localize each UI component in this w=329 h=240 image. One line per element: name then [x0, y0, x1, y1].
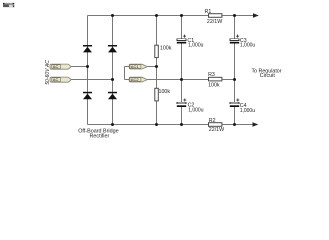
- svg-text:R3: R3: [208, 72, 215, 78]
- junction bottom rail at C2: [180, 123, 183, 126]
- junction bottom rail at middle column: [155, 123, 158, 126]
- svg-text:1,000u: 1,000u: [188, 108, 204, 114]
- svg-text:AC1: AC1: [131, 64, 140, 69]
- wire mid rail R3 to C3/C4 column: [222, 79, 235, 81]
- capacitor C4: [230, 99, 255, 114]
- port AC left input 1: [50, 64, 71, 69]
- svg-text:100k: 100k: [159, 89, 171, 95]
- junction top rail at C1: [180, 14, 183, 17]
- wire AC1 right tag to middle column: [147, 66, 156, 68]
- wire right bridge vertical: [112, 16, 114, 125]
- diode top-right of bridge: [108, 45, 117, 52]
- svg-text:22/1W: 22/1W: [209, 127, 224, 133]
- wire mid rail AC2 to R3: [147, 79, 208, 81]
- wire C4 top lead from mid rail: [234, 80, 236, 103]
- wire AC left tag2 to right vertical: [71, 79, 113, 81]
- svg-text:Rectifier: Rectifier: [90, 134, 110, 140]
- port AC left input 2: [50, 77, 71, 82]
- svg-text:AC2: AC2: [131, 77, 140, 82]
- svg-text:1,000u: 1,000u: [240, 108, 256, 114]
- junction mid rail at C1/C2: [180, 78, 183, 81]
- svg-text:100k: 100k: [208, 82, 220, 88]
- wire C1 bottom lead to mid rail: [181, 44, 183, 80]
- capacitor C3: [230, 35, 256, 49]
- svg-text:50-60V AC: 50-60V AC: [45, 60, 51, 85]
- wire C2 bottom lead: [181, 107, 183, 125]
- resistor R1: [209, 14, 222, 18]
- diode bottom-left of bridge: [83, 92, 92, 99]
- svg-text:R2: R2: [209, 118, 216, 124]
- wire bottom rail left segment: [88, 124, 209, 126]
- port AC1 right: [129, 64, 147, 69]
- resistor 100k upper bleeder: [155, 45, 159, 57]
- junction top rail at right bridge vertical: [111, 14, 114, 17]
- wire bottom rail right segment: [222, 124, 254, 126]
- watermark logo top-left: [3, 3, 14, 7]
- svg-text:1,000u: 1,000u: [188, 43, 204, 49]
- port AC2 right: [129, 77, 147, 82]
- resistor 100k lower bleeder: [155, 88, 159, 101]
- junction bottom rail at C4: [233, 123, 236, 126]
- arrow output negative rail: [253, 122, 259, 126]
- wire left bridge vertical: [87, 16, 89, 125]
- junction mid rail at C3/C4: [233, 78, 236, 81]
- svg-text:AC: AC: [53, 64, 59, 69]
- wire top rail right segment: [222, 15, 254, 17]
- wire middle divider column: [156, 16, 158, 125]
- wire C3 bottom lead to mid rail: [234, 44, 236, 80]
- wire C2 top lead from mid rail: [181, 80, 183, 103]
- resistor R3: [209, 77, 222, 81]
- wire C3 top lead: [234, 16, 236, 40]
- capacitor C2: [177, 99, 204, 114]
- capacitor C1: [177, 35, 204, 49]
- diode top-left of bridge: [83, 45, 92, 52]
- svg-text:100k: 100k: [160, 46, 172, 52]
- svg-text:1,000u: 1,000u: [240, 42, 256, 48]
- wire C1 top lead: [181, 16, 183, 40]
- svg-text:R1: R1: [205, 9, 212, 15]
- junction top rail at C3: [233, 14, 236, 17]
- arrow output positive rail: [253, 13, 259, 17]
- junction AC1 at left vertical: [86, 65, 89, 68]
- svg-text:Circuit: Circuit: [260, 73, 276, 79]
- svg-text:AC: AC: [53, 77, 59, 82]
- resistor R2: [209, 123, 222, 127]
- junction AC2 at right bridge vertical: [111, 78, 114, 81]
- wire top rail left segment: [88, 15, 209, 17]
- junction bottom rail at right bridge vertical: [111, 123, 114, 126]
- junction top rail at middle column: [155, 14, 158, 17]
- wire C4 bottom lead: [234, 107, 236, 125]
- junction AC1 at middle column: [155, 65, 158, 68]
- diode bottom-right of bridge: [108, 92, 117, 99]
- wire AC left tag1 to left vertical: [71, 66, 88, 68]
- svg-text:22/1W: 22/1W: [207, 19, 222, 25]
- bracket joining right AC1/AC2 tags: [124, 67, 126, 80]
